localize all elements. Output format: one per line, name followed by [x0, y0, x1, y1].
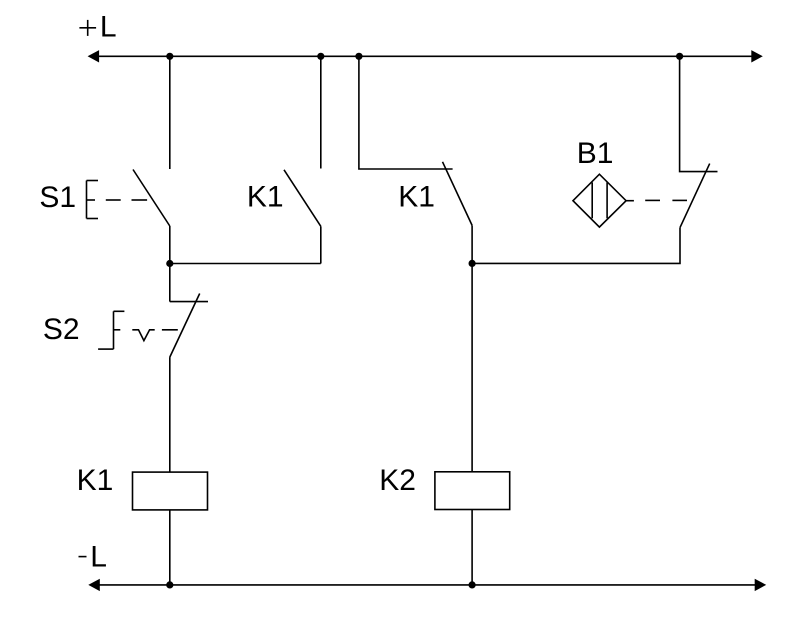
switch S2 (NC pushbutton)	[98, 264, 208, 358]
junction dot coil K1 / -L rail	[166, 581, 173, 588]
wire B1 contact to node B	[472, 228, 680, 264]
wire K1 left contact to node A	[320, 226, 322, 263]
label +L	[79, 10, 116, 43]
wire node B to coil K2	[471, 263, 473, 471]
svg-text:L: L	[100, 10, 117, 43]
wire rail to K1 right contact	[359, 56, 453, 169]
svg-text:B1: B1	[577, 137, 614, 170]
wire rail to K1 left contact	[320, 56, 322, 168]
junction dot rail/S1	[166, 53, 173, 60]
junction dot rail/K1 left contact	[317, 53, 324, 60]
node A	[166, 260, 173, 267]
junction dot rail/K1 right contact	[355, 53, 362, 60]
wire coil K2 to -L rail	[471, 510, 473, 586]
wire S1 to node A	[169, 226, 171, 264]
junction dot rail/B1 contact	[676, 53, 683, 60]
sensor B1 (proximity switch)	[573, 174, 687, 227]
wire K1 right contact to node B	[471, 225, 473, 263]
svg-text:K1: K1	[77, 464, 114, 497]
svg-text:L: L	[90, 540, 107, 573]
label -L	[79, 540, 107, 573]
contact K1 left (NO, self-hold)	[284, 170, 321, 227]
coil K2	[435, 472, 510, 510]
supply rail +L	[88, 50, 763, 62]
junction dot coil K2 / -L rail	[469, 581, 476, 588]
node B	[469, 260, 476, 267]
svg-text:K2: K2	[379, 464, 416, 497]
supply rail -L	[88, 579, 766, 591]
wire node A horizontal	[170, 263, 321, 265]
wire coil K1 to -L rail	[169, 510, 171, 585]
wire rail to B1 contact	[680, 56, 718, 171]
contact actuated by B1 (NC)	[680, 164, 710, 228]
wire S2 to coil K1	[169, 357, 171, 472]
svg-text:S1: S1	[39, 181, 76, 214]
svg-text:K1: K1	[247, 181, 284, 214]
svg-text:S2: S2	[43, 313, 80, 346]
wire rail to S1	[169, 56, 171, 169]
contact K1 right (NO)	[443, 162, 473, 226]
coil K1	[133, 472, 208, 510]
svg-text:K1: K1	[398, 181, 435, 214]
pushbutton S1 (NO)	[87, 170, 170, 227]
